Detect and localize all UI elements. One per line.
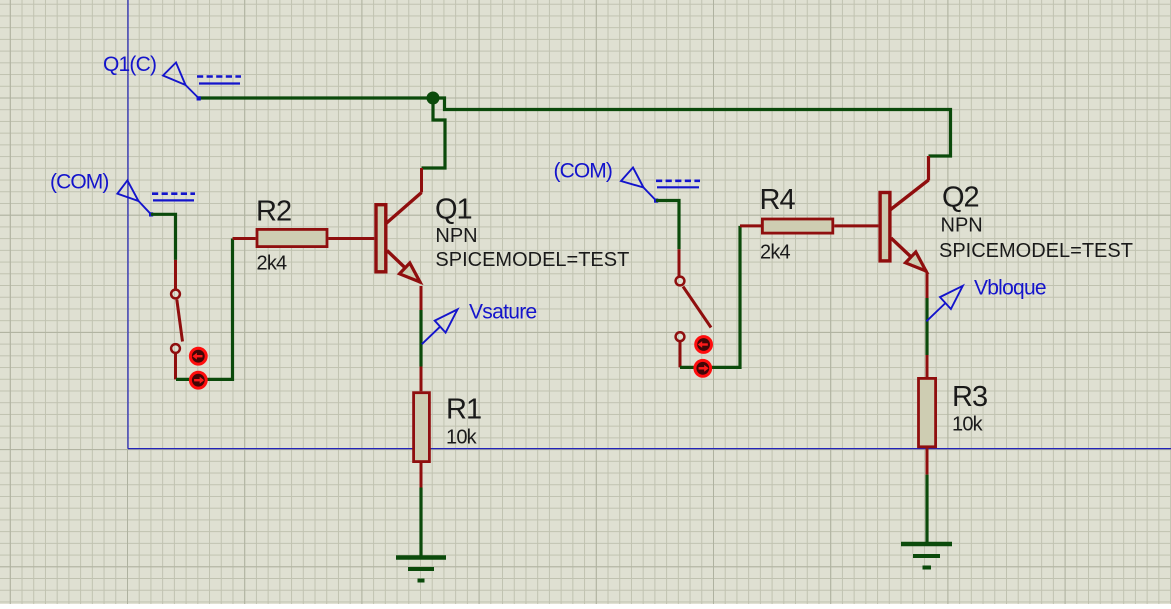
svg-text:R4: R4 (760, 184, 796, 216)
switch SW1 toggle button up (190, 348, 206, 364)
wire: R1 to ground (419, 488, 422, 558)
wire: switch SW1 bottom to R2 left (176, 239, 233, 380)
svg-text:Q1(C): Q1(C) (103, 53, 156, 76)
switch SW2 toggle button up (696, 337, 712, 353)
wire: R3 to ground (925, 475, 928, 544)
probe Q1(C) attach nub (197, 96, 201, 100)
voltage probe Vsature (422, 309, 458, 344)
voltage probe (COM) right (621, 168, 700, 201)
wire: (COM) probe left to switch top (151, 214, 176, 260)
ground (left) (396, 558, 446, 581)
switch SW2 (676, 249, 711, 367)
svg-text:Vbloque: Vbloque (974, 276, 1046, 299)
svg-text:Vsature: Vsature (469, 301, 536, 324)
junction dot (427, 92, 440, 105)
ground (right) (901, 544, 952, 568)
svg-text:(COM): (COM) (50, 170, 108, 193)
resistor R2 (233, 229, 375, 246)
voltage probe Q1(C) (163, 63, 241, 99)
switch SW1 (171, 260, 182, 380)
svg-text:SPICEMODEL=TEST: SPICEMODEL=TEST (939, 240, 1133, 262)
svg-text:10k: 10k (952, 414, 984, 436)
wire: Q1 emitter to R1 (419, 310, 422, 367)
wire: junction to top bus right, down to Q2 collector (433, 98, 951, 156)
svg-text:2k4: 2k4 (257, 252, 288, 274)
svg-text:R3: R3 (952, 381, 987, 413)
sheet border corner (128, 0, 1171, 449)
wire: junction down to Q1 collector (422, 98, 446, 168)
svg-text:R1: R1 (446, 393, 481, 425)
wire: probe Q1(C) to junction (199, 96, 434, 99)
switch SW1 toggle button down (190, 372, 206, 388)
probe (COM) left attach nub (149, 212, 153, 216)
svg-text:10k: 10k (446, 427, 478, 449)
svg-text:Q1: Q1 (435, 194, 472, 226)
resistor R4 (740, 219, 878, 233)
wire: (COM) probe right to switch top (656, 201, 679, 250)
svg-text:Q2: Q2 (942, 181, 979, 213)
transistor Q2 (880, 156, 928, 298)
svg-text:R2: R2 (256, 196, 291, 228)
transistor Q1 (376, 168, 422, 310)
svg-text:NPN: NPN (435, 225, 477, 247)
voltage probe Vbloque (926, 286, 962, 322)
resistor R1 (414, 367, 430, 488)
svg-text:(COM): (COM) (554, 160, 612, 183)
svg-text:SPICEMODEL=TEST: SPICEMODEL=TEST (435, 249, 629, 271)
resistor R3 (919, 355, 936, 475)
svg-text:2k4: 2k4 (760, 241, 791, 263)
probe (COM) right attach nub (654, 199, 658, 203)
wire: switch SW2 bottom to R4 left (680, 226, 740, 368)
voltage probe (COM) left (117, 180, 195, 214)
switch SW2 toggle button down (695, 360, 711, 376)
wire: Q2 emitter to R3 (925, 298, 928, 355)
svg-text:NPN: NPN (941, 215, 983, 237)
